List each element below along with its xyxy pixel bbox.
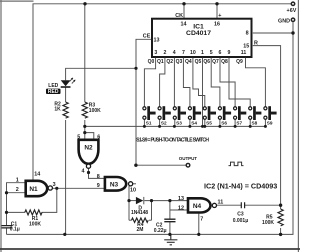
- svg-text:C3: C3: [237, 212, 244, 218]
- svg-text:100K: 100K: [262, 220, 274, 226]
- svg-text:13: 13: [154, 37, 160, 43]
- svg-text:S3: S3: [176, 120, 182, 125]
- svg-text:12: 12: [178, 206, 184, 212]
- svg-text:OUTPUT: OUTPUT: [179, 156, 198, 161]
- svg-text:+: +: [218, 13, 221, 19]
- svg-text:RED: RED: [48, 89, 59, 95]
- svg-text:11: 11: [218, 199, 224, 205]
- svg-text:2: 2: [164, 50, 167, 56]
- svg-text:8: 8: [97, 174, 100, 180]
- svg-text:100K: 100K: [89, 108, 101, 114]
- svg-text:Q2: Q2: [166, 59, 173, 65]
- svg-text:3: 3: [154, 50, 157, 56]
- svg-text:Q8: Q8: [221, 59, 228, 65]
- svg-text:S1: S1: [146, 120, 152, 125]
- svg-text:CE: CE: [143, 34, 151, 40]
- svg-text:7: 7: [182, 50, 185, 56]
- svg-text:9: 9: [228, 50, 231, 56]
- svg-text:5: 5: [77, 134, 80, 140]
- svg-text:IC2 (N1-N4) = CD4093: IC2 (N1-N4) = CD4093: [204, 182, 277, 191]
- svg-text:S4: S4: [191, 120, 197, 125]
- svg-text:S9: S9: [267, 120, 273, 125]
- svg-text:CD4017: CD4017: [186, 30, 211, 37]
- svg-text:Q4: Q4: [185, 59, 192, 65]
- svg-text:1: 1: [201, 50, 204, 56]
- svg-text:3: 3: [53, 182, 56, 188]
- svg-text:S6: S6: [221, 120, 227, 125]
- svg-text:2: 2: [16, 187, 19, 193]
- svg-text:S2: S2: [161, 120, 167, 125]
- svg-text:S7: S7: [236, 120, 242, 125]
- svg-text:N1: N1: [29, 186, 38, 193]
- svg-text:S5: S5: [206, 120, 212, 125]
- svg-text:S8: S8: [252, 120, 258, 125]
- svg-text:GND: GND: [278, 18, 290, 24]
- svg-text:0.001μ: 0.001μ: [233, 218, 249, 224]
- svg-text:9: 9: [97, 183, 100, 189]
- svg-text:15: 15: [243, 44, 249, 50]
- svg-text:N2: N2: [84, 145, 93, 152]
- svg-text:Q3: Q3: [176, 59, 183, 65]
- svg-text:R: R: [254, 41, 258, 47]
- svg-text:14: 14: [34, 171, 40, 177]
- svg-text:0.22μ: 0.22μ: [154, 228, 167, 234]
- svg-text:16: 16: [214, 21, 220, 27]
- svg-text:10: 10: [190, 50, 196, 56]
- svg-text:5: 5: [210, 50, 213, 56]
- svg-text:1K: 1K: [54, 107, 61, 113]
- svg-text:N3: N3: [110, 181, 119, 188]
- svg-text:Q9: Q9: [236, 59, 243, 65]
- svg-text:100K: 100K: [29, 221, 41, 227]
- svg-text:Q0: Q0: [148, 59, 155, 65]
- svg-text:1: 1: [16, 177, 19, 183]
- svg-text:S1-S9 = PUSH-TO-ON TACTILE SWI: S1-S9 = PUSH-TO-ON TACTILE SWITCH: [136, 138, 209, 144]
- svg-text:6: 6: [97, 134, 100, 140]
- svg-text:Q6: Q6: [203, 59, 210, 65]
- svg-text:N4: N4: [193, 203, 202, 210]
- svg-text:14: 14: [181, 21, 187, 27]
- svg-text:1N4148: 1N4148: [131, 210, 148, 216]
- svg-text:CK: CK: [175, 13, 183, 19]
- svg-text:4: 4: [173, 50, 176, 56]
- svg-text:11: 11: [241, 50, 247, 56]
- svg-text:13: 13: [178, 196, 184, 202]
- svg-text:2M: 2M: [137, 227, 144, 233]
- svg-text:0.1μ: 0.1μ: [10, 227, 20, 233]
- svg-text:Q5: Q5: [195, 59, 202, 65]
- svg-text:Q7: Q7: [212, 59, 219, 65]
- svg-text:4: 4: [82, 169, 85, 175]
- svg-text:8: 8: [246, 30, 249, 36]
- svg-text:7: 7: [200, 217, 203, 223]
- svg-text:6: 6: [219, 50, 222, 56]
- svg-text:10: 10: [130, 187, 136, 193]
- svg-text:LED: LED: [48, 83, 58, 89]
- svg-text:Q1: Q1: [157, 59, 164, 65]
- svg-text:+6V: +6V: [287, 8, 297, 14]
